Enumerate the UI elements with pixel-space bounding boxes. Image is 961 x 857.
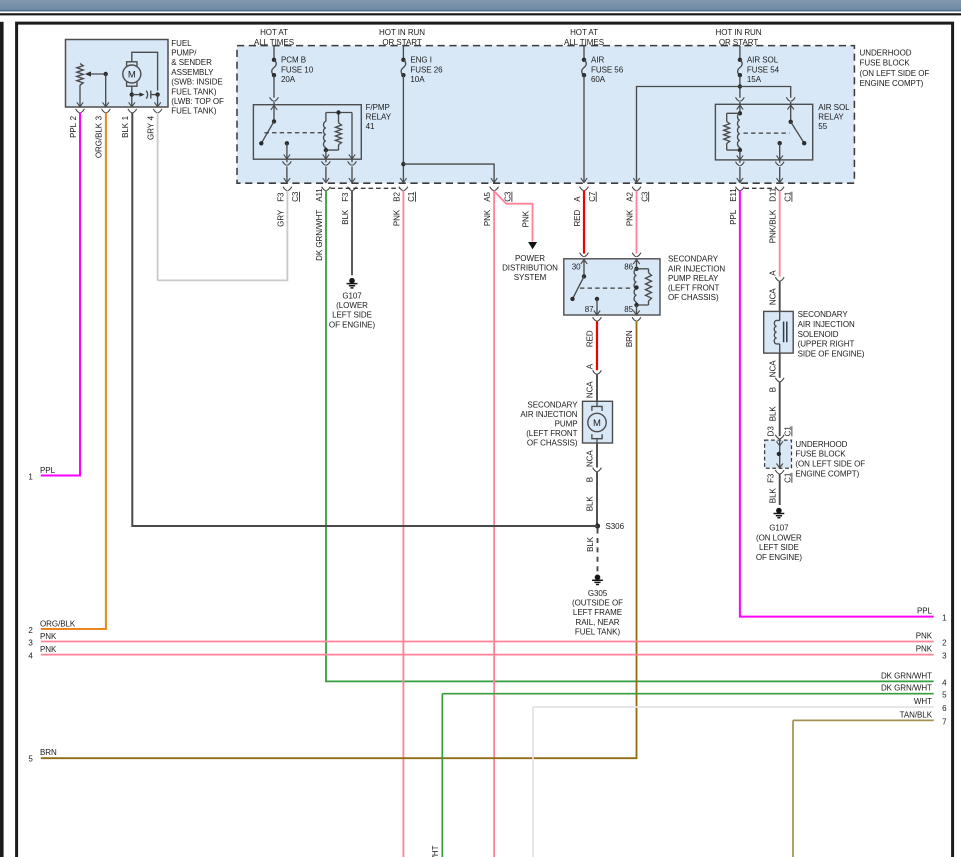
node: PCM B FUSE 10 20A bottom xyxy=(272,73,276,77)
wire BLK: pump to S306 xyxy=(596,472,598,526)
relay AIR SOL RELAY 55 (box) xyxy=(715,104,812,160)
svg-text:DK GRN/WHT: DK GRN/WHT xyxy=(881,684,932,693)
arrow: into block D3 xyxy=(777,441,783,446)
relay 55 coil with parallel resistor xyxy=(724,113,740,150)
arrow: pump relay pin 86 terminal xyxy=(633,260,639,265)
svg-text:85: 85 xyxy=(624,305,633,314)
wire: relay 55 coil to pin xyxy=(739,150,741,160)
wire: relay 41 ground to fuse block edge xyxy=(351,160,353,183)
sender resistor (level sensor) xyxy=(77,64,83,86)
svg-text:C1: C1 xyxy=(784,191,793,202)
arrow: relay 41 coil pin xyxy=(323,154,329,159)
svg-text:BLK: BLK xyxy=(768,487,777,503)
wire: solenoid pigtail upper xyxy=(779,281,781,311)
svg-text:DK GRN/WHT: DK GRN/WHT xyxy=(315,210,324,261)
svg-text:RELAY: RELAY xyxy=(818,113,844,122)
underhood fuse block pass-through (small dashed box) xyxy=(765,440,792,468)
svg-text:5: 5 xyxy=(942,691,947,700)
connector break: relay 41 coil lead xyxy=(322,161,331,165)
svg-text:SECONDARY: SECONDARY xyxy=(798,310,849,319)
wire: ENG I fuse down to B2 exit xyxy=(402,75,404,182)
svg-text:PPL: PPL xyxy=(40,466,56,475)
arrow: pump relay pin 87 xyxy=(594,311,600,316)
svg-text:FUSE 26: FUSE 26 xyxy=(410,65,443,74)
arrow: relay 41 ground pin xyxy=(349,154,355,159)
wire: feed into AIR SOL FUSE 54 15A xyxy=(739,46,741,60)
svg-text:RED: RED xyxy=(586,330,595,347)
svg-text:M: M xyxy=(593,418,601,429)
node: relay 41 contact xyxy=(285,141,289,145)
svg-text:60A: 60A xyxy=(591,75,606,84)
svg-text:2: 2 xyxy=(28,626,33,635)
connector break: pump relay pin 86 xyxy=(632,253,641,257)
svg-text:7: 7 xyxy=(942,717,947,726)
wire: fuse 54 branch right to relay 55 switch xyxy=(740,87,791,105)
svg-text:BLK: BLK xyxy=(341,209,350,225)
node: AIR SOL FUSE 54 15A bottom xyxy=(738,73,742,77)
wire: relay 55 contact D11 to fuse block edge xyxy=(779,161,781,183)
wire: AIR fuse down to A/C7 exit xyxy=(583,75,585,182)
relay: secondary air injection pump relay (box) xyxy=(564,259,660,315)
connector break: relay 41 contact lead xyxy=(283,161,292,165)
node: relay 55 contact xyxy=(778,141,782,145)
svg-text:UNDERHOOD: UNDERHOOD xyxy=(795,440,847,449)
label: underhood fuse block (small) xyxy=(795,440,865,478)
connector break: fuel pump lead x=157.6 xyxy=(153,109,162,113)
svg-text:30: 30 xyxy=(572,263,581,272)
wire: relay 41 switch common xyxy=(273,105,275,121)
svg-text:PNK: PNK xyxy=(522,210,531,227)
label: AIR FUSE 56 60A xyxy=(591,56,624,84)
wire ORG/BLK: pump pin 3 to left edge pin 2 xyxy=(41,113,106,629)
node: relay 55 coil top xyxy=(738,111,742,115)
node: pump relay coil top xyxy=(634,267,638,271)
svg-text:ALL TIMES: ALL TIMES xyxy=(254,38,294,47)
wire PNK: A5 to bottom edge xyxy=(493,191,495,857)
connector break: GRY F3/C3 xyxy=(283,187,292,191)
label: G107 lower left side of engine xyxy=(329,292,376,330)
svg-text:PNK: PNK xyxy=(392,209,401,226)
wire TAN/BLK: right pin 7 horizontal xyxy=(793,719,934,721)
connector break: solenoid pin B xyxy=(775,378,784,382)
svg-text:LEFT SIDE: LEFT SIDE xyxy=(759,543,799,552)
arrow: relay 55 coil pin xyxy=(737,155,743,160)
arrow: relay 55 contact pin xyxy=(777,155,783,160)
svg-text:FUSE BLOCK: FUSE BLOCK xyxy=(795,450,846,459)
arrow: A/C7 exit xyxy=(581,178,587,183)
arrow: out of block F3 xyxy=(777,464,783,469)
arrow: fuel pump pin at x=157.6 xyxy=(154,102,160,107)
wire: relay 41 coil to fuse block edge xyxy=(325,160,327,183)
label: ENG I FUSE 26 10A xyxy=(410,56,443,84)
svg-text:LEFT SIDE: LEFT SIDE xyxy=(332,311,372,320)
svg-text:NCA: NCA xyxy=(586,450,595,467)
svg-text:AIR INJECTION: AIR INJECTION xyxy=(798,320,855,329)
node: capacitor left xyxy=(130,92,134,96)
svg-text:F3: F3 xyxy=(276,192,285,202)
fuel pump & sender assembly (box) xyxy=(66,40,169,108)
svg-text:BRN: BRN xyxy=(40,748,57,757)
connector break: relay 55 contact D11 lead xyxy=(775,162,784,166)
svg-text:SYSTEM: SYSTEM xyxy=(514,273,547,282)
arrow: fuel pump pin at x=105.7 xyxy=(103,102,109,107)
svg-text:BLK: BLK xyxy=(586,496,595,512)
svg-text:4: 4 xyxy=(28,651,33,660)
wire: feed into AIR FUSE 56 60A xyxy=(583,46,585,60)
svg-text:C1: C1 xyxy=(784,472,793,483)
wire: ENG I branch to A5 exit xyxy=(403,164,494,183)
svg-text:C7: C7 xyxy=(588,191,597,202)
node: relay 41 coil bottom xyxy=(324,148,328,152)
label: secondary air injection pump xyxy=(520,400,578,447)
arrow: relay 41 contact pin xyxy=(284,154,290,159)
svg-text:(ON LEFT SIDE OF: (ON LEFT SIDE OF xyxy=(795,460,865,469)
node: relay 41 coil top xyxy=(336,110,340,114)
label: secondary air injection solenoid xyxy=(798,310,865,358)
svg-text:(OUTSIDE OF: (OUTSIDE OF xyxy=(572,599,623,608)
wire BLK: block to G107 xyxy=(779,474,781,505)
arrow: relay 41 ground exit xyxy=(349,178,355,183)
svg-text:OR START: OR START xyxy=(382,38,421,47)
svg-text:PUMP RELAY: PUMP RELAY xyxy=(668,274,719,283)
svg-text:A: A xyxy=(586,363,595,369)
svg-text:B: B xyxy=(768,387,777,392)
svg-text:PPL: PPL xyxy=(917,607,933,616)
svg-text:PUMP: PUMP xyxy=(555,420,578,429)
left edge pin 4 PNK xyxy=(28,645,933,660)
right edge pin 7 TAN/BLK xyxy=(793,710,947,857)
secondary air injection solenoid (box) xyxy=(764,311,794,353)
label: PCM B FUSE 10 20A xyxy=(281,56,314,84)
wire: relay 55 coil feed xyxy=(739,105,741,113)
node: pump relay coil bottom xyxy=(634,303,638,307)
label: POWER DISTRIBUTION SYSTEM xyxy=(502,254,558,282)
connector break: A/C7 xyxy=(580,187,589,191)
wire PNK: left pin 3 to right pin 2 xyxy=(41,641,934,643)
svg-text:(UPPER RIGHT: (UPPER RIGHT xyxy=(798,340,855,349)
svg-text:PNK: PNK xyxy=(483,209,492,226)
connector break: fuel pump lead x=105.9 xyxy=(102,109,111,113)
svg-text:4: 4 xyxy=(942,678,947,687)
wire: motor bottom to capacitor node xyxy=(131,86,133,107)
wire PPL: E11 to right edge pin 1 xyxy=(740,191,934,617)
svg-text:DISTRIBUTION: DISTRIBUTION xyxy=(502,264,558,273)
label: HOT AT ALL TIMES (right) xyxy=(564,28,604,47)
svg-text:ORG/BLK: ORG/BLK xyxy=(95,122,104,158)
connector break: fuse 54 to relay 55 coil xyxy=(736,97,745,101)
svg-text:A2: A2 xyxy=(625,192,634,202)
svg-text:C3: C3 xyxy=(291,191,300,202)
svg-text:BRN: BRN xyxy=(625,330,634,347)
svg-text:UNDERHOOD: UNDERHOOD xyxy=(860,48,912,57)
svg-text:BLK: BLK xyxy=(768,406,777,422)
wire: sender resistor to pin 2 xyxy=(79,85,81,107)
wire: relay 41 contact to fuse block edge xyxy=(286,160,288,183)
wire: feed into ENG I FUSE 26 10A xyxy=(402,46,404,60)
svg-text:C1: C1 xyxy=(784,426,793,437)
node: relay 41 switch arm end xyxy=(259,141,263,145)
arrow: to power distribution system xyxy=(528,242,537,249)
wire: pump relay coil to pin 85 xyxy=(636,305,638,315)
relay F/PMP RELAY 41 (box) xyxy=(253,105,361,160)
wire: relay 41 top rail to ground pin xyxy=(351,113,353,159)
svg-text:AIR SOL: AIR SOL xyxy=(818,103,850,112)
wire DK GRN/WHT: A11 to right edge pin 4 xyxy=(326,191,934,682)
svg-text:NCA: NCA xyxy=(768,360,777,377)
svg-text:GRY: GRY xyxy=(146,122,155,140)
svg-text:TAN/BLK: TAN/BLK xyxy=(900,710,933,719)
ground G305 xyxy=(592,575,603,585)
svg-text:6: 6 xyxy=(942,704,947,713)
svg-text:FUSE 54: FUSE 54 xyxy=(747,65,780,74)
svg-text:& SENDER: & SENDER xyxy=(171,58,212,67)
svg-text:D3: D3 xyxy=(766,426,775,437)
wire: feed into PCM B FUSE 10 20A xyxy=(273,46,275,60)
connector break: pump relay pin 30 xyxy=(580,253,589,257)
svg-text:PNK: PNK xyxy=(40,645,57,654)
svg-text:DK GRN/WHT: DK GRN/WHT xyxy=(431,845,440,857)
arrow: fuel pump pin at x=80 xyxy=(77,102,83,107)
node: pump relay switch arm end xyxy=(570,297,574,301)
wire: solenoid pigtail lower xyxy=(779,353,781,378)
wire: pump relay switch common xyxy=(583,260,585,277)
arrow: pump relay pin 85 xyxy=(633,311,639,316)
wire: pump pigtail upper xyxy=(596,374,598,401)
wire RED: pin 87 to pump connector xyxy=(596,321,598,370)
svg-text:A: A xyxy=(768,270,777,276)
svg-text:1: 1 xyxy=(28,472,33,481)
connector break: pump pin B xyxy=(593,468,602,472)
relay 41 coil with parallel resistor xyxy=(324,113,353,151)
svg-text:F/PMP: F/PMP xyxy=(366,103,390,112)
right edge pin 1 PPL xyxy=(917,607,947,623)
svg-text:SIDE OF ENGINE): SIDE OF ENGINE) xyxy=(798,349,865,358)
wire PNK: A5 branch to power distribution xyxy=(494,191,532,241)
node: relay 55 coil bottom xyxy=(738,148,742,152)
arrow: relay 55 coil E11 exit xyxy=(737,178,743,183)
wire BLK: F3 to G107 xyxy=(351,191,353,276)
wire PNK: A2 to pump relay pin 86 xyxy=(636,191,638,254)
svg-text:PNK: PNK xyxy=(40,632,57,641)
svg-text:3: 3 xyxy=(95,115,104,120)
wire: fuse 54 branch left to A2 exit xyxy=(637,87,740,183)
svg-text:AIR: AIR xyxy=(591,56,604,65)
svg-text:C3: C3 xyxy=(504,191,513,202)
wire WHT: right pin 6 horizontal xyxy=(533,706,934,708)
svg-text:GRY: GRY xyxy=(276,209,285,227)
arrow: B2 exit xyxy=(400,178,406,183)
wire BLK: pump pin 1 to S306 xyxy=(132,113,597,526)
svg-text:5: 5 xyxy=(28,754,33,763)
motor M (pump) xyxy=(588,401,606,443)
node: pump relay switch pivot xyxy=(582,274,586,278)
wire PNK: left pin 4 to right pin 3 xyxy=(41,654,934,656)
svg-text:NCA: NCA xyxy=(586,381,595,398)
arrow: A2 exit xyxy=(633,178,639,183)
ground G107 (right) xyxy=(774,508,785,518)
node: AIR FUSE 56 60A top xyxy=(582,58,586,62)
svg-text:10A: 10A xyxy=(410,75,425,84)
right edge pin 2 PNK xyxy=(916,632,947,648)
arrow: fuel pump pin at x=131.8 xyxy=(129,102,135,107)
armature dashed link pump relay xyxy=(580,287,632,289)
svg-text:FUEL TANK): FUEL TANK) xyxy=(575,628,621,637)
right edge pin 5 DK GRN/WHT xyxy=(431,684,947,857)
splice S306 xyxy=(595,523,600,528)
svg-text:BLK: BLK xyxy=(121,122,130,138)
connector break: pin 85 lead xyxy=(632,317,641,321)
wire PNK/BLK: D11 to solenoid xyxy=(779,191,781,277)
arrow: relay 41 input terminal xyxy=(271,105,277,110)
wire: through small fuse block xyxy=(779,439,781,468)
wire WHT: right pin 6 vertical xyxy=(532,707,534,857)
svg-text:RELAY: RELAY xyxy=(366,113,392,122)
wire: motor top loop xyxy=(132,52,158,90)
connector break: E11 xyxy=(736,187,745,191)
arrow: A5 exit xyxy=(491,178,497,183)
svg-text:OF ENGINE): OF ENGINE) xyxy=(756,553,803,562)
svg-text:OF CHASSIS): OF CHASSIS) xyxy=(527,439,578,448)
svg-text:55: 55 xyxy=(818,122,827,131)
adjacent page frame edge (left) xyxy=(0,22,4,857)
svg-text:(LEFT FRONT: (LEFT FRONT xyxy=(668,284,719,293)
node: pump relay coil / armature xyxy=(634,285,638,289)
wire: relay 41 contact to exit pin xyxy=(286,143,288,159)
left edge pin 1 PPL xyxy=(28,466,55,481)
svg-text:NCA: NCA xyxy=(768,288,777,305)
wire BLK: S306 to G305 (dashed) xyxy=(597,529,599,572)
fuse AIR FUSE 56 60A xyxy=(582,60,587,75)
svg-text:FUSE BLOCK: FUSE BLOCK xyxy=(860,59,911,68)
wire GRY: pump pin 4 down xyxy=(157,113,159,281)
svg-text:PNK: PNK xyxy=(916,645,933,654)
wire PPL: pump pin 2 to left edge pin 1 xyxy=(41,113,80,476)
label: underhood fuse block xyxy=(860,48,930,88)
svg-text:DK GRN/WHT: DK GRN/WHT xyxy=(881,671,932,680)
wire: capacitor to pin 4 xyxy=(157,95,159,107)
svg-text:G107: G107 xyxy=(769,524,789,533)
wire: wiper to pin 3 xyxy=(105,74,107,107)
svg-text:PNK: PNK xyxy=(916,632,933,641)
svg-text:(LOWER: (LOWER xyxy=(336,301,368,310)
svg-text:B2: B2 xyxy=(392,192,401,202)
motor M (fuel pump) xyxy=(123,62,141,86)
arrow: relay 55 switch terminal xyxy=(788,105,794,110)
wire: AIR SOL fuse to relay 55 coil xyxy=(739,75,741,104)
connector break: fuel pump lead x=80 xyxy=(76,109,85,113)
svg-text:AIR INJECTION: AIR INJECTION xyxy=(520,410,577,419)
svg-text:F3: F3 xyxy=(766,473,775,483)
svg-text:SECONDARY: SECONDARY xyxy=(527,400,578,409)
svg-text:3: 3 xyxy=(942,652,947,661)
connector break: A5/C3 xyxy=(490,187,499,191)
node: ENG I FUSE 26 10A bottom xyxy=(401,73,405,77)
arrow: relay 41 contact exit xyxy=(284,178,290,183)
svg-text:WHT: WHT xyxy=(914,697,932,706)
pump relay coil with parallel resistor xyxy=(634,269,651,305)
ground G107 (left) xyxy=(347,278,358,288)
connector break: pump pin A xyxy=(593,370,602,374)
arrow: relay 55 coil terminal xyxy=(737,105,743,110)
svg-text:3: 3 xyxy=(28,638,33,647)
wire TAN/BLK: right pin 7 vertical xyxy=(792,720,794,857)
wire: relay 55 switch common xyxy=(790,105,792,122)
svg-text:B: B xyxy=(586,477,595,482)
svg-text:A5: A5 xyxy=(483,192,492,202)
wire: relay 55 contact to pin xyxy=(779,143,781,160)
node: ENG I FUSE 26 10A top xyxy=(401,58,405,62)
svg-text:ENG I: ENG I xyxy=(410,56,432,65)
svg-text:FUEL TANK): FUEL TANK) xyxy=(171,107,217,116)
svg-text:1: 1 xyxy=(121,115,130,120)
armature dashed link relay 55 xyxy=(744,132,790,134)
svg-text:BLK: BLK xyxy=(586,536,595,552)
node: relay 41 switch pivot xyxy=(272,119,276,123)
label: AIR SOL FUSE 54 15A xyxy=(747,56,780,84)
arrow: relay 41 coil exit xyxy=(323,178,329,183)
svg-text:SOLENOID: SOLENOID xyxy=(798,330,839,339)
svg-text:1: 1 xyxy=(942,614,947,623)
wire: PCM B fuse to relay 41 xyxy=(273,75,275,105)
svg-text:C1: C1 xyxy=(407,191,416,202)
svg-text:RAIL, NEAR: RAIL, NEAR xyxy=(576,618,620,627)
svg-text:C3: C3 xyxy=(640,191,649,202)
left edge pin 2 ORG/BLK xyxy=(28,620,76,635)
label: HOT IN RUN OR START (right) xyxy=(715,28,761,47)
connector break: relay 41 ground lead xyxy=(348,161,357,165)
svg-text:(ON LEFT SIDE OF: (ON LEFT SIDE OF xyxy=(860,69,930,78)
wiper arm with arrowhead xyxy=(85,71,106,76)
wire DK GRN/WHT: right pin 5 horizontal xyxy=(442,693,933,695)
svg-text:PNK/BLK: PNK/BLK xyxy=(769,209,778,243)
svg-text:F3: F3 xyxy=(341,192,350,202)
svg-text:AIR SOL: AIR SOL xyxy=(747,56,779,65)
connector break: A2/C3 xyxy=(632,187,641,191)
RFI capacitor xyxy=(132,91,158,99)
fuse AIR SOL FUSE 54 15A xyxy=(738,60,743,75)
wire: pump relay contact to pin 87 xyxy=(596,299,598,315)
svg-text:A11: A11 xyxy=(315,188,324,202)
connector break: A11 xyxy=(322,187,331,191)
svg-text:POWER: POWER xyxy=(515,254,545,263)
node: PCM B FUSE 10 20A top xyxy=(272,58,276,62)
svg-text:LEFT FRAME: LEFT FRAME xyxy=(573,608,622,617)
top window chrome bar xyxy=(0,0,961,11)
connector break: pin 87 lead xyxy=(593,317,602,321)
wire BLK: solenoid to fuse block xyxy=(779,382,781,436)
svg-text:HOT IN RUN: HOT IN RUN xyxy=(715,28,761,37)
svg-text:FUEL TANK): FUEL TANK) xyxy=(171,87,217,96)
right edge pin 6 WHT xyxy=(533,697,947,857)
svg-text:41: 41 xyxy=(366,122,375,131)
svg-text:RED: RED xyxy=(573,210,582,227)
node: small fuse block xyxy=(777,452,781,456)
svg-text:PUMP/: PUMP/ xyxy=(171,49,197,58)
svg-text:HOT IN RUN: HOT IN RUN xyxy=(379,28,425,37)
connector break: B2/C1 xyxy=(399,187,408,191)
wire: relay 55 coil E11 to fuse block edge xyxy=(739,161,741,183)
label: G305 xyxy=(572,589,623,637)
svg-text:ALL TIMES: ALL TIMES xyxy=(564,38,604,47)
svg-text:PPL: PPL xyxy=(729,209,738,225)
wire RED: A/C7 to pump relay pin 30 xyxy=(583,191,585,254)
connector face dashed line: E11-D11 (C1) xyxy=(744,187,775,189)
label: HOT AT ALL TIMES (left) xyxy=(254,28,294,47)
label: HOT IN RUN OR START (left) xyxy=(379,28,425,47)
svg-text:ORG/BLK: ORG/BLK xyxy=(40,620,76,629)
svg-text:FUSE 10: FUSE 10 xyxy=(281,65,314,74)
connector break: fuse 10 to relay 41 xyxy=(270,97,279,101)
